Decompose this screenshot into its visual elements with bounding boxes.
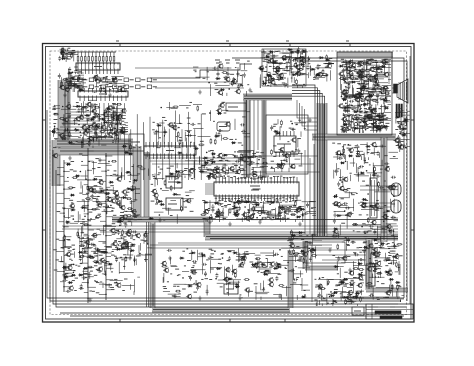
left of label rows wire W93 bbox=[72, 88, 74, 92]
above jungle IC label text bbox=[214, 167, 216, 169]
left analog section label text bbox=[113, 110, 116, 112]
below jungle IC capacitor C95 bbox=[255, 202, 260, 205]
video output block wire W414 bbox=[369, 101, 371, 111]
video output block label text bbox=[350, 60, 353, 62]
below jungle IC label text bbox=[247, 209, 249, 211]
right mid section resistor R133 bbox=[372, 208, 373, 210]
top-left wiring label text bbox=[99, 80, 103, 82]
left ladder components label text bbox=[129, 181, 131, 183]
top-centre section label text bbox=[240, 84, 243, 86]
video output block resistor R61 bbox=[378, 116, 379, 118]
below jungle IC wire W477 bbox=[241, 201, 257, 203]
below jungle IC label text bbox=[202, 218, 205, 220]
video output block wire W269 bbox=[341, 126, 343, 133]
below U2 section capacitor C26 bbox=[104, 109, 109, 112]
left analog section transistor Q12 bbox=[67, 105, 71, 109]
top-centre section capacitor C32 bbox=[223, 76, 228, 79]
wire fan W39 bbox=[60, 103, 109, 127]
video output block label text bbox=[346, 109, 350, 111]
SIF/filter section label text bbox=[184, 206, 187, 208]
SIF/filter section label text bbox=[160, 168, 163, 170]
above jungle IC wire W458 bbox=[211, 163, 226, 165]
left analog section label text bbox=[117, 115, 120, 117]
top-centre-right section label text bbox=[273, 73, 276, 75]
left ladder components label text bbox=[99, 263, 102, 265]
below jungle IC wire W520 bbox=[284, 211, 293, 213]
left analog section wire W115 bbox=[83, 101, 85, 114]
video output block label text bbox=[378, 119, 380, 121]
above jungle IC label text bbox=[262, 166, 265, 168]
below jungle IC resistor R97 bbox=[216, 214, 217, 216]
below jungle IC label text bbox=[252, 213, 255, 215]
below jungle IC wire W521 bbox=[278, 204, 280, 215]
wire signal drop W28 bbox=[168, 129, 170, 180]
left analog section wire W152 bbox=[76, 111, 92, 113]
below jungle IC wire W525 bbox=[295, 219, 297, 222]
below jungle IC resistor R90 bbox=[261, 217, 262, 219]
standby section outline bbox=[305, 242, 345, 263]
left of label rows diode D5 bbox=[68, 72, 73, 74]
video output block wire W267 bbox=[342, 78, 349, 80]
left analog section label text bbox=[111, 136, 113, 138]
above jungle IC capacitor C88 bbox=[235, 160, 240, 163]
left ladder components label text bbox=[97, 167, 100, 169]
below U2 section label text bbox=[122, 118, 126, 120]
left analog section wire W124 bbox=[73, 119, 75, 125]
above jungle IC diode D67 bbox=[223, 154, 228, 156]
below jungle IC resistor R101 bbox=[216, 212, 217, 214]
SIF/filter section wire W532 bbox=[189, 169, 196, 171]
right mid section capacitor C123 bbox=[391, 176, 396, 179]
video output block label text bbox=[359, 76, 361, 78]
below jungle IC diode D74 bbox=[297, 208, 302, 210]
left ladder components wire W563 bbox=[137, 276, 140, 278]
video output block wire W351 bbox=[361, 126, 375, 128]
right mid section transistor Q124 bbox=[340, 186, 344, 190]
left ladder components wire W556 bbox=[94, 175, 102, 177]
video output block wire W401 bbox=[358, 120, 366, 122]
below jungle IC capacitor C92 bbox=[300, 213, 305, 216]
top-centre section label text bbox=[251, 91, 253, 93]
below U2 section wire W180 bbox=[93, 136, 105, 138]
left ladder components wire W616 bbox=[77, 211, 79, 222]
top-centre-right section label text bbox=[274, 83, 276, 85]
wire signal drop W21 bbox=[123, 127, 125, 180]
left ladder components label text bbox=[110, 286, 114, 288]
mid ladder zone resistor R13 bbox=[96, 198, 98, 199]
top-left wiring wire W77 bbox=[102, 82, 113, 84]
right mid section resistor R139 bbox=[358, 269, 359, 271]
video output block wire W275 bbox=[369, 93, 371, 105]
left analog section label text bbox=[68, 116, 70, 118]
below jungle IC wire W516 bbox=[310, 213, 316, 215]
below jungle IC wire W476 bbox=[236, 218, 252, 220]
below jungle IC wire W528 bbox=[280, 204, 295, 206]
top-centre section capacitor C33 bbox=[243, 73, 246, 78]
left ladder components wire W573 bbox=[137, 214, 140, 216]
video output block label text bbox=[376, 96, 379, 98]
video output block label text bbox=[367, 78, 370, 80]
wire link W51 bbox=[150, 81, 238, 83]
video output block wire W307 bbox=[363, 83, 365, 94]
left of label rows wire W92 bbox=[76, 86, 82, 88]
video output block resistor R63 bbox=[371, 76, 373, 77]
wire in right bus bbox=[320, 104, 324, 236]
video output block label text bbox=[379, 91, 381, 93]
mid ladder zone node N6 bbox=[110, 205, 112, 207]
right mid section capacitor C132 bbox=[334, 170, 339, 173]
video output block label text bbox=[346, 110, 350, 112]
left ladder components resistor R118 bbox=[125, 256, 127, 257]
below jungle IC wire W526 bbox=[215, 216, 227, 218]
video output block label text bbox=[365, 84, 368, 86]
below jungle IC wire W500 bbox=[205, 219, 207, 223]
mid ladder zone wire W108 bbox=[112, 187, 114, 194]
video output block resistor R69 bbox=[348, 119, 350, 120]
top-left wiring capacitor C9 bbox=[100, 87, 105, 90]
mid ladder zone wire W113 bbox=[100, 189, 113, 191]
video output block label text bbox=[365, 111, 369, 113]
top-left wiring resistor R7 bbox=[100, 87, 102, 88]
below jungle IC label text bbox=[269, 201, 272, 203]
top-centre-right section wire W226 bbox=[270, 79, 272, 87]
left ladder components label text bbox=[124, 278, 128, 280]
wire step W60 bbox=[305, 109, 318, 130]
top-left wiring label text bbox=[99, 85, 102, 87]
below U2 section wire W185 bbox=[123, 133, 128, 135]
video output block wire W338 bbox=[346, 71, 348, 81]
video output block wire W310 bbox=[371, 78, 384, 80]
below jungle IC wire W474 bbox=[261, 208, 263, 215]
above jungle IC wire W449 bbox=[199, 156, 201, 163]
video output block label text bbox=[364, 112, 367, 114]
below jungle IC transistor Q97 bbox=[249, 215, 253, 219]
top-centre section wire W201 bbox=[222, 93, 224, 96]
video output block wire W263 bbox=[361, 75, 363, 86]
below U2 section wire W172 bbox=[124, 131, 128, 133]
below jungle IC wire W494 bbox=[312, 215, 316, 217]
left ladder components wire W566 bbox=[93, 201, 106, 203]
right mid section transistor Q129 bbox=[388, 185, 392, 189]
top-left corner block wire W70 bbox=[67, 56, 72, 58]
above jungle IC diode D71 bbox=[247, 157, 252, 159]
top-left wiring node N2 bbox=[115, 77, 117, 79]
video output block wire W365 bbox=[374, 62, 386, 64]
video output block resistor R78 bbox=[353, 110, 354, 112]
top-centre-right section label text bbox=[277, 50, 281, 52]
bus ladder vertical x=106 bbox=[105, 153, 107, 300]
left ladder components label text bbox=[92, 290, 95, 292]
below jungle IC capacitor C105 bbox=[221, 211, 224, 216]
below jungle IC label text bbox=[276, 202, 279, 204]
above jungle IC label text bbox=[258, 156, 262, 158]
right mid section diode D123 bbox=[369, 205, 374, 207]
right mid section capacitor C140 bbox=[379, 186, 384, 189]
top-centre-right section label text bbox=[286, 62, 289, 64]
top-centre section capacitor C30 bbox=[213, 67, 218, 70]
top-left wiring resistor R5 bbox=[99, 77, 101, 78]
top-centre-right section transistor Q43 bbox=[282, 56, 286, 60]
mid ladder zone label text bbox=[124, 194, 128, 196]
mid ladder zone label text bbox=[82, 199, 85, 201]
below jungle IC label text bbox=[247, 211, 250, 213]
right mid section capacitor C128 bbox=[345, 207, 350, 210]
left analog section capacitor C18 bbox=[64, 128, 69, 131]
left ladder components transistor Q118 bbox=[69, 286, 73, 290]
video output block resistor R66 bbox=[378, 119, 379, 121]
below jungle IC node N71 bbox=[231, 208, 233, 210]
video output block capacitor C71 bbox=[361, 76, 364, 81]
left analog section label text bbox=[111, 137, 113, 139]
left analog section transistor Q14 bbox=[83, 131, 87, 135]
top-left corner block label text bbox=[68, 47, 71, 49]
below jungle IC wire W495 bbox=[302, 201, 315, 203]
left ladder components wire W621 bbox=[82, 268, 84, 280]
below U2 section wire W167 bbox=[110, 111, 121, 113]
above jungle IC resistor R80 bbox=[251, 156, 252, 158]
video output block wire W375 bbox=[349, 60, 351, 73]
below jungle IC node N73 bbox=[269, 203, 271, 205]
right mid section label text bbox=[363, 241, 367, 243]
top-centre-right section wire W230 bbox=[272, 58, 274, 72]
above jungle IC label text bbox=[198, 167, 201, 169]
top-centre section label text bbox=[240, 74, 243, 76]
below U2 section wire W177 bbox=[86, 119, 88, 125]
top-centre-right section label text bbox=[271, 80, 274, 82]
video output block wire W370 bbox=[349, 94, 363, 96]
video output block wire W373 bbox=[357, 106, 359, 112]
right mid section capacitor C121 bbox=[354, 253, 359, 256]
wire horizontal run W12 bbox=[100, 231, 398, 233]
top-centre-right section wire W235 bbox=[272, 63, 284, 65]
below U2 section label text bbox=[103, 136, 107, 138]
left ladder components label text bbox=[82, 218, 85, 220]
below jungle IC label text bbox=[232, 205, 235, 207]
left ladder components label text bbox=[63, 268, 66, 270]
top-centre-right section label text bbox=[264, 71, 268, 73]
below U2 section node N16 bbox=[89, 126, 91, 128]
video output block label text bbox=[376, 73, 378, 75]
left ladder components diode D103 bbox=[125, 171, 130, 173]
above jungle IC label text bbox=[247, 161, 249, 163]
video output block wire W335 bbox=[346, 107, 358, 109]
wire drop W56 bbox=[245, 100, 247, 168]
mid ladder zone label text bbox=[86, 192, 89, 194]
below jungle IC capacitor C96 bbox=[306, 202, 309, 207]
top-centre-right section node N28 bbox=[301, 53, 303, 55]
top-centre-right section wire W225 bbox=[297, 65, 299, 77]
top-centre section transistor Q34 bbox=[226, 77, 230, 81]
right mid section label text bbox=[359, 251, 361, 253]
left ladder components label text bbox=[81, 160, 83, 162]
top-centre-right section label text bbox=[274, 71, 278, 73]
mid ladder zone label text bbox=[125, 210, 127, 212]
above jungle IC capacitor C86 bbox=[213, 175, 218, 178]
video output block transistor Q47 bbox=[384, 86, 388, 90]
top-centre-right section wire W222 bbox=[297, 50, 299, 60]
video output block capacitor C58 bbox=[377, 127, 382, 130]
video output block wire W412 bbox=[352, 85, 354, 97]
below jungle IC resistor R103 bbox=[282, 207, 283, 209]
left ladder components capacitor C113 bbox=[62, 273, 65, 278]
above jungle IC node N62 bbox=[258, 159, 260, 161]
below jungle IC transistor Q95 bbox=[246, 216, 250, 220]
above jungle IC wire W434 bbox=[212, 151, 214, 160]
video output block capacitor C60 bbox=[359, 83, 364, 86]
wire in pair down bbox=[247, 100, 265, 177]
below jungle IC label text bbox=[204, 212, 207, 214]
below U2 section wire W189 bbox=[104, 113, 117, 115]
video output block label text bbox=[368, 107, 371, 109]
left ladder components wire W552 bbox=[90, 190, 101, 192]
right mid section label text bbox=[362, 223, 365, 225]
above jungle IC label text bbox=[232, 163, 235, 165]
video output block wire W344 bbox=[385, 101, 391, 103]
left ladder components diode D104 bbox=[78, 251, 83, 253]
top-centre-right section capacitor C40 bbox=[283, 83, 288, 86]
wire nested corner left W4 bbox=[56, 170, 395, 307]
right mid section label text bbox=[337, 168, 339, 170]
below U2 section wire W182 bbox=[114, 136, 116, 140]
below jungle IC wire W513 bbox=[285, 215, 287, 222]
top-left corner block label text bbox=[71, 53, 73, 55]
below U2 section diode D22 bbox=[103, 121, 108, 123]
video output block transistor Q60 bbox=[361, 86, 365, 90]
below jungle IC capacitor C106 bbox=[238, 206, 241, 211]
wire drop W53 bbox=[257, 100, 259, 150]
top-centre-right section wire W234 bbox=[295, 73, 306, 75]
video output block diode D51 bbox=[351, 81, 356, 83]
wire ribbon corner W16 bbox=[292, 88, 317, 236]
left of label rows resistor R11 bbox=[78, 74, 80, 75]
video output block wire W292 bbox=[364, 80, 366, 91]
left ladder components node N78 bbox=[119, 225, 121, 227]
wire signal drop W32 bbox=[194, 129, 196, 180]
top-centre-right section resistor R35 bbox=[268, 78, 270, 79]
left ladder components wire W601 bbox=[60, 256, 62, 262]
video output block resistor R71 bbox=[339, 77, 340, 79]
video output block transistor Q50 bbox=[359, 95, 363, 99]
top-left corner block wire W72 bbox=[65, 54, 78, 56]
left ladder components wire W615 bbox=[121, 167, 123, 178]
video output block wire W358 bbox=[368, 78, 370, 88]
right mid section label text bbox=[377, 241, 379, 243]
below jungle IC label text bbox=[287, 217, 290, 219]
left ladder components wire W595 bbox=[130, 244, 132, 251]
below jungle IC diode D76 bbox=[215, 215, 220, 217]
video output block label text bbox=[347, 120, 349, 122]
above jungle IC label text bbox=[252, 156, 254, 158]
left ladder components wire W586 bbox=[85, 170, 87, 180]
video output block wire W329 bbox=[369, 123, 377, 125]
left analog section resistor R20 bbox=[99, 131, 100, 133]
video output block label text bbox=[370, 74, 372, 76]
below jungle IC capacitor C101 bbox=[280, 217, 285, 220]
video output block wire W316 bbox=[378, 73, 386, 75]
left analog section label text bbox=[100, 114, 103, 116]
video output block wire W311 bbox=[356, 93, 370, 95]
left ladder components node N84 bbox=[115, 232, 117, 234]
below jungle IC wire W512 bbox=[215, 202, 223, 204]
left ladder components label text bbox=[107, 195, 109, 197]
top-centre-right section diode D28 bbox=[279, 77, 284, 79]
top-centre-right section diode D33 bbox=[275, 70, 280, 72]
left analog section wire W131 bbox=[89, 132, 91, 144]
below jungle IC wire W505 bbox=[204, 201, 216, 203]
left ladder components wire W567 bbox=[103, 225, 105, 235]
SIF/filter section wire W540 bbox=[170, 200, 176, 202]
left analog section label text bbox=[83, 123, 87, 125]
below jungle IC wire W470 bbox=[309, 200, 316, 202]
above jungle IC wire W443 bbox=[238, 150, 254, 152]
below U2 section wire W178 bbox=[116, 106, 118, 119]
right mid section label text bbox=[387, 243, 390, 245]
IC U6 (audio amp) bbox=[224, 284, 238, 294]
top-centre-right section wire W259 bbox=[278, 84, 285, 86]
left ladder components wire W589 bbox=[128, 244, 130, 251]
video output block transistor Q75 bbox=[374, 75, 378, 79]
above jungle IC label text bbox=[251, 168, 253, 170]
above jungle IC wire W442 bbox=[244, 161, 253, 163]
video output block capacitor C48 bbox=[372, 108, 377, 111]
left ladder components label text bbox=[67, 177, 69, 179]
mid ladder zone transistor Q9 bbox=[123, 190, 127, 194]
wire power link W48 bbox=[340, 296, 400, 298]
top-centre-right section wire W223 bbox=[305, 52, 307, 64]
top-centre-right section label text bbox=[261, 57, 264, 59]
above jungle IC transistor Q89 bbox=[218, 153, 222, 157]
below jungle IC wire W492 bbox=[266, 213, 276, 215]
SIF/filter section label text bbox=[151, 200, 155, 202]
video output block label text bbox=[354, 62, 357, 64]
bus right bottom horizontal bbox=[366, 288, 408, 292]
video output block diode D63 bbox=[384, 107, 389, 109]
left ladder components resistor R123 bbox=[95, 215, 96, 217]
left analog section wire W130 bbox=[95, 136, 109, 138]
video output block wire W423 bbox=[346, 75, 359, 77]
left analog section wire W119 bbox=[114, 125, 116, 135]
video output block diode D46 bbox=[384, 62, 389, 64]
left analog section capacitor C20 bbox=[96, 115, 101, 118]
left ladder components wire W606 bbox=[103, 263, 105, 273]
below jungle IC wire W527 bbox=[302, 211, 304, 222]
video output block label text bbox=[376, 118, 380, 120]
below jungle IC wire W510 bbox=[228, 209, 230, 216]
video output block capacitor C56 bbox=[380, 68, 383, 73]
left ladder components label text bbox=[83, 240, 85, 242]
video output block label text bbox=[386, 93, 389, 95]
left ladder components capacitor C112 bbox=[132, 230, 137, 233]
below jungle IC diode D87 bbox=[233, 207, 238, 209]
capacitor C3 (hanging) bbox=[237, 67, 239, 71]
video output block label text bbox=[346, 109, 350, 111]
top-centre section wire W193 bbox=[193, 66, 198, 68]
video output block wire W272 bbox=[386, 97, 388, 103]
below jungle IC label text bbox=[279, 205, 281, 207]
video output block label text bbox=[384, 58, 387, 60]
left of label rows diode D4 bbox=[70, 77, 75, 79]
left ladder components node N80 bbox=[84, 216, 86, 218]
right mid section resistor R142 bbox=[352, 223, 353, 225]
top-left corner block wire W69 bbox=[61, 53, 63, 60]
left ladder components label text bbox=[114, 170, 117, 172]
video output block label text bbox=[347, 129, 349, 131]
SIF/filter section label text bbox=[175, 178, 178, 180]
video output block wire W327 bbox=[388, 104, 392, 106]
left ladder components wire W553 bbox=[118, 262, 120, 274]
below U2 section capacitor C29 bbox=[104, 133, 107, 138]
top-centre-right section wire W243 bbox=[261, 52, 263, 61]
